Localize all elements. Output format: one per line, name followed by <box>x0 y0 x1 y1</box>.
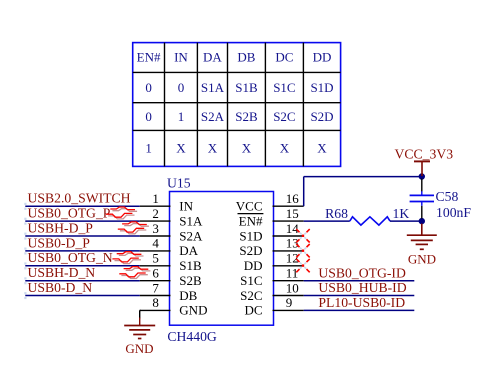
svg-text:X: X <box>176 141 186 156</box>
wire net USB0_OTG_N <box>25 265 139 267</box>
svg-text:USB0-D_N: USB0-D_N <box>28 280 93 295</box>
svg-text:S1D: S1D <box>310 80 333 95</box>
svg-text:1: 1 <box>178 109 185 124</box>
anchor dots USB0_OTG_N <box>24 262 26 269</box>
pin 16 stub <box>273 205 304 207</box>
svg-text:DC: DC <box>244 303 262 318</box>
anchor dots USB0-D_N <box>24 292 26 299</box>
svg-text:0: 0 <box>145 109 152 124</box>
wire net USBH-D_N <box>25 280 139 282</box>
svg-text:S1A: S1A <box>201 80 225 95</box>
svg-text:S1C: S1C <box>240 273 262 288</box>
svg-text:USBH-D_N: USBH-D_N <box>28 265 96 280</box>
svg-text:S2D: S2D <box>239 243 262 258</box>
wire C58 to junction <box>421 202 423 206</box>
anchor dots USBH-D_P <box>24 233 26 240</box>
wire VCC node to C58 <box>421 179 423 192</box>
pin 1 stub <box>140 205 171 207</box>
svg-text:DB: DB <box>179 288 197 303</box>
truth table frame <box>133 43 341 167</box>
differential pair mark pin 2 <box>106 207 137 219</box>
svg-text:16: 16 <box>286 191 300 206</box>
svg-text:S1D: S1D <box>239 228 262 243</box>
svg-text:8: 8 <box>152 295 159 310</box>
svg-text:GND: GND <box>408 251 436 266</box>
svg-text:S2B: S2B <box>235 109 258 124</box>
pin 15 stub <box>273 220 304 222</box>
svg-text:DB: DB <box>237 50 255 65</box>
svg-text:DC: DC <box>275 50 293 65</box>
svg-text:12: 12 <box>286 251 299 266</box>
svg-text:1: 1 <box>152 191 159 206</box>
svg-text:GND: GND <box>125 341 153 356</box>
svg-text:USB2.0_SWITCH: USB2.0_SWITCH <box>28 191 131 206</box>
svg-text:4: 4 <box>152 236 159 251</box>
svg-text:2: 2 <box>152 206 159 221</box>
pin 3 stub <box>140 235 171 237</box>
wire net USB2.0_SWITCH <box>25 205 139 207</box>
pin 4 stub <box>140 250 171 252</box>
svg-text:100nF: 100nF <box>436 205 471 220</box>
svg-text:GND: GND <box>179 303 207 318</box>
svg-text:10: 10 <box>286 280 299 295</box>
svg-text:X: X <box>280 141 290 156</box>
wire junction to ground <box>421 224 423 236</box>
svg-text:EN#: EN# <box>137 50 161 65</box>
svg-text:S2C: S2C <box>273 109 295 124</box>
wire R68 to junction <box>390 220 422 222</box>
svg-text:IN: IN <box>179 199 193 214</box>
svg-text:11: 11 <box>286 266 299 281</box>
wire net USB0_OTG-ID <box>304 280 415 282</box>
differential pair mark pin 5 <box>112 252 143 264</box>
svg-text:7: 7 <box>152 280 159 295</box>
svg-text:USB0_HUB-ID: USB0_HUB-ID <box>318 280 406 295</box>
differential pair mark pin 3 <box>118 222 149 234</box>
svg-text:S2A: S2A <box>179 228 203 243</box>
svg-text:X: X <box>317 141 327 156</box>
svg-text:5: 5 <box>152 251 159 266</box>
svg-text:S1C: S1C <box>273 80 295 95</box>
svg-text:S1B: S1B <box>235 80 258 95</box>
svg-text:1: 1 <box>145 141 152 156</box>
svg-text:USBH-D_P: USBH-D_P <box>28 220 94 235</box>
svg-text:1K: 1K <box>393 206 410 221</box>
svg-text:R68: R68 <box>325 206 348 221</box>
svg-text:S1B: S1B <box>179 258 202 273</box>
svg-text:USB0_OTG-ID: USB0_OTG-ID <box>318 265 406 280</box>
svg-text:S2B: S2B <box>179 273 202 288</box>
no-ERC mark pin 14 <box>300 233 306 239</box>
svg-text:DD: DD <box>244 258 263 273</box>
wire net USB0-D_N <box>25 295 139 297</box>
svg-text:DD: DD <box>313 50 332 65</box>
anchor dots USB0_OTG_P <box>24 218 26 225</box>
pin 6 stub <box>140 280 171 282</box>
svg-text:X: X <box>208 141 218 156</box>
svg-text:S1A: S1A <box>179 213 203 228</box>
no-ERC mark pin 12 <box>300 263 306 269</box>
svg-text:USB0-D_P: USB0-D_P <box>28 235 91 250</box>
junction VCC node <box>419 173 425 179</box>
pin 9 stub <box>273 309 304 311</box>
svg-text:S2D: S2D <box>310 109 333 124</box>
differential pair mark pin 6 <box>119 267 150 279</box>
wire net USB0-D_P <box>25 250 139 252</box>
wire pin 8 to ground <box>140 309 141 311</box>
anchor dots USBH-D_N <box>24 277 26 284</box>
svg-text:14: 14 <box>286 221 300 236</box>
anchor dots USB2.0_SWITCH <box>24 203 26 210</box>
svg-text:VCC_3V3: VCC_3V3 <box>395 146 454 161</box>
svg-text:USB0_OTG_P: USB0_OTG_P <box>28 206 111 221</box>
wire net PL10-USB0-ID <box>304 309 415 311</box>
svg-text:3: 3 <box>152 221 159 236</box>
pin 8 stub <box>140 309 171 311</box>
pin 12 stub <box>273 265 304 267</box>
wire pin 15 to R68 <box>304 220 350 222</box>
svg-text:X: X <box>242 141 252 156</box>
pin 14 stub <box>273 235 304 237</box>
no-ERC mark pin 13 <box>300 248 306 254</box>
truth table text <box>137 50 334 156</box>
anchor dots USB0-D_P <box>24 248 26 255</box>
svg-text:13: 13 <box>286 236 299 251</box>
svg-text:C58: C58 <box>436 189 459 204</box>
svg-text:9: 9 <box>286 295 293 310</box>
svg-text:DA: DA <box>179 243 198 258</box>
wire net USBH-D_P <box>25 235 139 237</box>
power symbol VCC_3V3 <box>421 161 423 176</box>
svg-text:EN#: EN# <box>239 213 263 228</box>
svg-text:VCC: VCC <box>236 199 263 214</box>
ground symbol (C58/R68) <box>407 235 437 249</box>
svg-text:0: 0 <box>145 80 152 95</box>
svg-text:PL10-USB0-ID: PL10-USB0-ID <box>318 295 405 310</box>
junction R68/C58/GND <box>419 218 425 224</box>
IC U15 body <box>170 192 274 326</box>
svg-text:DA: DA <box>203 50 222 65</box>
wire pin 16 to VCC rail <box>303 177 305 207</box>
resistor R68 <box>350 217 390 225</box>
svg-text:U15: U15 <box>167 175 191 190</box>
svg-text:S2A: S2A <box>201 109 225 124</box>
pin 13 stub <box>273 250 304 252</box>
svg-text:6: 6 <box>152 266 159 281</box>
wire net USB0_HUB-ID <box>304 295 415 297</box>
wire net USB0_OTG_P <box>25 220 139 222</box>
svg-text:15: 15 <box>286 206 299 221</box>
svg-text:USB0_OTG_N: USB0_OTG_N <box>28 250 113 265</box>
pin 11 stub <box>273 280 304 282</box>
svg-text:0: 0 <box>178 80 185 95</box>
svg-text:IN: IN <box>174 50 188 65</box>
EN# overline <box>238 213 264 215</box>
pin 5 stub <box>140 265 171 267</box>
capacitor C58 <box>410 195 434 201</box>
pin 10 stub <box>273 295 304 297</box>
pin 2 stub <box>140 220 171 222</box>
ground symbol (pin 8) <box>124 326 155 339</box>
svg-text:CH440G: CH440G <box>167 329 217 344</box>
pin 7 stub <box>140 295 171 297</box>
svg-text:S2C: S2C <box>240 288 262 303</box>
